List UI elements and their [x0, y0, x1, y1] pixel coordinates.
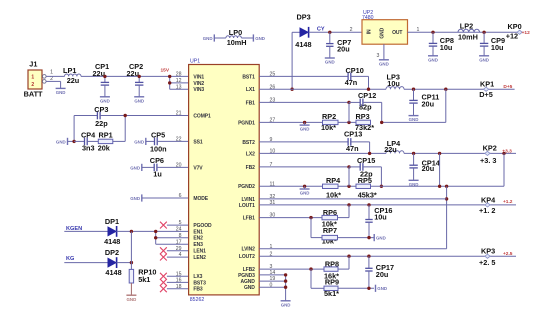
wire DP1 to EN node — [116, 230, 188, 232]
wire LOUT1 row — [259, 204, 516, 206]
wire VIN2 VIN3 drop — [170, 76, 189, 89]
capacitor CP6 — [150, 156, 189, 178]
resistor RP6 — [322, 205, 349, 229]
svg-text:EN1: EN1 — [193, 229, 203, 235]
junction EN1 — [154, 230, 157, 233]
ground G-CP5 — [134, 138, 154, 145]
port KP1 D+5 — [479, 80, 512, 99]
ground G-RP9 — [376, 285, 388, 292]
port KP3 +2.5 — [479, 246, 513, 266]
svg-text:IN: IN — [366, 29, 372, 34]
svg-text:20u: 20u — [337, 44, 350, 53]
svg-text:BST2: BST2 — [242, 140, 255, 146]
pin 22 SS1 name+number — [176, 137, 203, 146]
wire KGEN to DP1 — [64, 230, 108, 232]
pin 20 V7V name+number — [176, 163, 204, 172]
svg-text:VIN1: VIN1 — [193, 74, 204, 80]
svg-text:7480: 7480 — [362, 15, 374, 21]
junction CP16 rail — [367, 203, 370, 206]
ground G-RP10 — [126, 295, 136, 302]
svg-text:GND: GND — [134, 139, 144, 144]
junction RP5 right — [380, 185, 383, 188]
svg-text:GND: GND — [479, 57, 489, 62]
junction RP2-RP3 FB node — [347, 102, 350, 124]
ground G-MODE — [130, 194, 188, 201]
pin 13 VIN3 name+number — [176, 84, 205, 93]
ground G-RP7 — [374, 234, 386, 241]
svg-text:18: 18 — [176, 284, 182, 290]
wire LVIN1 row — [259, 198, 446, 200]
svg-text:GND: GND — [100, 98, 110, 103]
junction PGND2 gnd — [303, 185, 306, 188]
svg-text:10mH: 10mH — [227, 38, 247, 47]
wire divider2 top run — [371, 153, 505, 186]
svg-text:GND: GND — [134, 98, 144, 103]
junction CP9 — [482, 31, 485, 34]
wire DP2 to node — [116, 262, 131, 264]
svg-text:LX3: LX3 — [193, 274, 202, 280]
capacitor CP4 — [74, 130, 98, 152]
wire input rail LP1 to VIN1 — [81, 75, 189, 77]
wire PGND1 row — [259, 121, 356, 123]
svg-text:CP3: CP3 — [94, 105, 108, 114]
pin stub PGOOD — [167, 224, 189, 226]
svg-text:6: 6 — [179, 193, 182, 199]
junction RP6 rail — [347, 203, 350, 206]
svg-text:KP2: KP2 — [483, 144, 497, 153]
pin 9 BST2 name+number — [242, 137, 272, 146]
svg-text:BATT: BATT — [24, 90, 43, 99]
junction CY node — [328, 31, 331, 34]
pin stub LEN2 — [167, 256, 189, 258]
svg-text:PGND1: PGND1 — [238, 120, 255, 126]
junction LVIN1 tie — [445, 197, 448, 200]
svg-text:2: 2 — [350, 27, 353, 33]
port KP0 +12 — [506, 22, 530, 41]
inductor LP0 — [226, 28, 247, 47]
capacitor CP3 — [94, 105, 125, 128]
svg-text:GND: GND — [376, 236, 386, 241]
svg-text:CP5: CP5 — [151, 131, 165, 140]
pin 29 LEN1 name+number — [176, 246, 206, 255]
svg-text:100n: 100n — [150, 145, 167, 154]
wire J1 pin2 jog to ground — [46, 81, 61, 88]
resistor RP8 — [324, 256, 349, 280]
wire UP2 OUT rail — [408, 31, 520, 33]
svg-text:22u: 22u — [384, 145, 397, 154]
svg-text:RP7: RP7 — [323, 226, 337, 235]
svg-text:OUT: OUT — [392, 30, 402, 36]
svg-text:15: 15 — [176, 271, 182, 277]
ground G-CP6 — [130, 164, 154, 171]
svg-text:22: 22 — [176, 137, 182, 143]
no-ERC mark pin 5 — [160, 222, 167, 229]
svg-text:SS1: SS1 — [193, 139, 202, 145]
svg-text:VIN3: VIN3 — [193, 87, 204, 93]
svg-text:5k1: 5k1 — [138, 275, 150, 284]
wire COMP gnd riser — [74, 116, 97, 142]
svg-text:LP2: LP2 — [460, 22, 473, 31]
ground G-CP11 — [409, 116, 419, 123]
junction LDO feed takeoff — [445, 185, 448, 188]
capacitor CP5 — [150, 131, 189, 154]
svg-text:CP4: CP4 — [81, 130, 96, 139]
svg-text:5: 5 — [179, 220, 182, 226]
svg-text:AGND: AGND — [240, 279, 255, 285]
svg-text:LP0: LP0 — [229, 28, 242, 37]
svg-text:EN3: EN3 — [193, 242, 203, 248]
resistor RP1 — [98, 130, 126, 152]
capacitor CP15 — [349, 156, 381, 187]
resistor RP3 — [355, 112, 374, 132]
pin 1 LVIN2 name+number — [241, 244, 272, 253]
svg-text:GND: GND — [379, 61, 389, 66]
svg-text:1: 1 — [31, 74, 34, 80]
wire divider1 feed — [382, 89, 446, 122]
wire LOUT2 row — [259, 255, 516, 257]
junction PGND1 gnd — [303, 121, 306, 124]
svg-text:GND: GND — [244, 285, 255, 291]
pin 3 LFB2 name+number — [243, 264, 273, 273]
svg-text:EN2: EN2 — [193, 236, 203, 242]
svg-text:KP0: KP0 — [508, 22, 522, 31]
wire LFB2 row — [259, 268, 324, 270]
svg-text:KP3: KP3 — [481, 246, 495, 255]
svg-text:BST1: BST1 — [242, 74, 255, 80]
svg-text:GND: GND — [409, 117, 419, 122]
wire LX1 to DP3 riser — [292, 32, 300, 89]
ground G-UP2 — [379, 60, 389, 67]
wire diode-OR vertical — [130, 231, 132, 269]
svg-text:LOUT2: LOUT2 — [239, 254, 255, 260]
wire FB2 row — [259, 166, 349, 168]
svg-text:10u: 10u — [440, 43, 453, 52]
svg-text:20u: 20u — [422, 99, 435, 108]
svg-text:FB3: FB3 — [193, 287, 202, 293]
pin 7 FB2 name+number — [246, 162, 273, 171]
pin 2 LOUT2 name+number — [239, 251, 273, 260]
pin 28 VIN1 name+number — [176, 72, 205, 81]
ground G-CP9 — [479, 56, 489, 63]
diode DP2 — [105, 248, 122, 277]
svg-text:COMP1: COMP1 — [193, 113, 211, 119]
no-ERC mark pin 29 — [160, 247, 167, 254]
svg-text:10u: 10u — [374, 212, 387, 221]
svg-text:GND: GND — [377, 286, 387, 291]
svg-text:13: 13 — [176, 84, 182, 90]
wire LX2 row — [259, 152, 386, 154]
svg-text:+2. 5: +2. 5 — [479, 258, 495, 267]
capacitor CP2 — [127, 62, 144, 97]
net label 15V — [161, 68, 170, 74]
svg-text:GND: GND — [56, 90, 66, 95]
junction input rail at CP1 — [103, 75, 106, 78]
svg-text:FB2: FB2 — [246, 165, 255, 171]
inductor LP4 — [384, 139, 404, 154]
pin 23 FB1 name+number — [246, 98, 276, 107]
wire RP1 riser to COMP1 — [125, 116, 188, 142]
resistor RP10 — [129, 268, 156, 284]
pin 26 LX1 name+number — [246, 84, 275, 93]
svg-text:+12: +12 — [506, 32, 518, 41]
no-ERC mark pin 18 — [160, 285, 167, 292]
wire D+5 rail — [404, 88, 515, 90]
ground G-PGND1 — [300, 122, 310, 131]
ground G-CP1 — [100, 97, 110, 104]
pin 8 EN2 name+number — [179, 233, 204, 242]
svg-text:UP1: UP1 — [190, 58, 200, 64]
svg-text:+2.5: +2.5 — [503, 251, 513, 257]
inductor LP1 — [63, 66, 81, 85]
wire PGND3 row — [259, 274, 285, 276]
pin number 1 of J1 — [50, 69, 53, 75]
svg-text:PGND3: PGND3 — [238, 273, 255, 279]
junction DP1 output — [130, 230, 133, 233]
svg-text:V7V: V7V — [193, 165, 203, 171]
junction VIN rail — [168, 75, 171, 78]
diode DP1 — [104, 217, 120, 246]
wire LFB1 row — [259, 217, 322, 219]
pin 27 PGND1 name+number — [238, 118, 275, 127]
svg-text:4: 4 — [179, 252, 182, 258]
wire ground bus drop — [285, 275, 287, 301]
junction EN2 — [154, 236, 157, 239]
net label CY — [317, 26, 325, 32]
capacitor CP16 — [365, 205, 392, 238]
capacitor CP9 — [480, 32, 505, 55]
wire LFB1 to RP7 — [311, 218, 322, 238]
junction CP17 bottom — [367, 287, 370, 290]
svg-text:PGND2: PGND2 — [238, 184, 255, 190]
pin 15 LX3 name+number — [176, 271, 203, 280]
net label KGEN — [66, 226, 82, 232]
junction COMP gnd node — [72, 140, 75, 143]
resistor RP2 — [321, 112, 338, 132]
wire LFB2 to RP9 — [311, 269, 324, 288]
junction divider1 top — [444, 88, 447, 91]
wire +3.3 rail — [404, 152, 516, 154]
wire PGND2 row — [259, 185, 356, 187]
port KP4 +1.2 — [479, 195, 513, 215]
IC UP1 85262 body — [189, 58, 260, 302]
pin 11 PGND2 name+number — [238, 181, 275, 190]
pin 21 COMP1 name+number — [176, 111, 211, 120]
svg-text:+1.2: +1.2 — [503, 199, 513, 205]
svg-text:KP1: KP1 — [480, 80, 494, 89]
pin 30 LFB1 name+number — [243, 213, 276, 222]
svg-text:10u: 10u — [491, 43, 504, 52]
pin 32 LVIN1 name+number — [241, 194, 275, 203]
svg-text:4148: 4148 — [295, 40, 311, 49]
pin 14 PGND3 name+number — [238, 270, 275, 279]
junction LFB2 node — [309, 267, 312, 270]
capacitor CP8 — [429, 32, 454, 55]
pin 0 GND name+number — [244, 282, 273, 291]
svg-text:22u: 22u — [127, 69, 140, 78]
svg-text:10mH: 10mH — [458, 33, 478, 42]
net label KG — [66, 256, 74, 262]
svg-text:FB1: FB1 — [246, 100, 255, 106]
ground G-LP0-right — [253, 34, 265, 41]
capacitor CP17 — [365, 256, 394, 288]
ground G-LP0-left — [203, 34, 226, 41]
inductor LP2 — [458, 22, 480, 42]
svg-text:KP4: KP4 — [481, 195, 496, 204]
svg-text:82p: 82p — [359, 102, 372, 111]
svg-text:BST3: BST3 — [193, 280, 206, 286]
capacitor CP12 — [349, 91, 382, 122]
svg-text:DP2: DP2 — [105, 248, 119, 257]
junction FB2 node — [347, 165, 350, 168]
svg-text:LOUT1: LOUT1 — [239, 203, 255, 209]
junction rail-divider2 — [438, 152, 441, 155]
junction FB1 node — [347, 101, 350, 104]
regulator UP2 (7480) — [362, 10, 408, 44]
wire KG to DP2 — [64, 262, 108, 264]
ground G-COMP — [56, 138, 74, 145]
svg-text:RP9: RP9 — [325, 278, 339, 287]
pin stub FB3 — [167, 288, 189, 290]
svg-text:MODE: MODE — [193, 196, 208, 202]
pin 17 EN3 name+number — [176, 239, 203, 248]
junction divider2-rail riser — [438, 185, 441, 188]
svg-text:1: 1 — [50, 69, 53, 75]
svg-text:22u: 22u — [93, 69, 106, 78]
svg-text:D+5: D+5 — [503, 84, 512, 90]
pin 19 AGND name+number — [240, 276, 275, 285]
resistor RP7 — [322, 226, 374, 246]
pin 6 MODE name+number — [179, 193, 209, 202]
svg-text:20u: 20u — [422, 164, 435, 173]
svg-text:3: 3 — [377, 53, 380, 59]
svg-text:DP1: DP1 — [105, 217, 119, 226]
svg-text:J1: J1 — [29, 59, 37, 68]
svg-text:+3. 3: +3. 3 — [480, 156, 496, 165]
capacitor CP1 — [93, 62, 110, 97]
svg-text:85262: 85262 — [190, 297, 205, 303]
svg-text:8: 8 — [179, 233, 182, 239]
svg-text:24: 24 — [176, 227, 182, 233]
svg-text:GND: GND — [255, 36, 265, 41]
pin 25 BST1 name+number — [242, 72, 275, 81]
capacitor CP11 — [409, 89, 439, 115]
junction rail-KP2 feed — [502, 152, 505, 155]
pin number 2 of J1 — [50, 76, 53, 82]
junction CP8 — [431, 31, 434, 34]
pin 12 VIN2 name+number — [176, 78, 205, 87]
svg-text:RP3: RP3 — [356, 112, 370, 121]
junction CP14 — [412, 152, 415, 155]
svg-text:21: 21 — [176, 111, 182, 117]
svg-text:LEN1: LEN1 — [193, 249, 206, 255]
capacitor CP7 — [326, 32, 351, 58]
capacitor CP13 — [344, 129, 370, 153]
svg-text:CP13: CP13 — [344, 129, 362, 138]
svg-text:15V: 15V — [161, 68, 170, 74]
svg-text:20u: 20u — [376, 270, 389, 279]
svg-text:10u: 10u — [387, 79, 400, 88]
svg-text:16: 16 — [176, 278, 182, 284]
no-ERC mark pin 4 — [160, 254, 167, 261]
junction PGND3 — [284, 273, 287, 276]
capacitor CP14 — [409, 153, 440, 180]
svg-text:GND: GND — [428, 57, 438, 62]
wire GND pin row — [259, 286, 285, 288]
svg-text:12: 12 — [176, 78, 182, 84]
wire DP3 to UP2 IN — [309, 31, 362, 33]
diode DP3 — [295, 12, 311, 49]
svg-text:22p: 22p — [95, 119, 108, 128]
pin 4 LEN2 name+number — [179, 252, 206, 261]
svg-text:GND: GND — [300, 127, 310, 132]
resistor RP5 — [356, 176, 377, 200]
pin 18 FB3 name+number — [176, 284, 203, 293]
junction DP2 output — [130, 261, 133, 264]
pin number 2 of UP2 — [350, 27, 353, 33]
svg-text:GND: GND — [130, 196, 140, 201]
junction GND pin — [284, 286, 287, 289]
svg-text:4148: 4148 — [104, 237, 120, 246]
svg-text:GND: GND — [380, 27, 386, 38]
junction AGND — [284, 279, 287, 282]
resistor RP4 — [323, 176, 342, 200]
connector J1 — [24, 59, 46, 98]
junction LFB1 node — [309, 216, 312, 219]
junction CP16 bottom — [367, 236, 370, 239]
svg-text:GND: GND — [127, 297, 137, 302]
ground G-CP14 — [409, 180, 419, 187]
wire BST2 row — [259, 141, 348, 143]
junction RP4-RP5 FB node — [347, 167, 350, 188]
junction RP3 right — [380, 121, 383, 124]
pin number 1 of UP2 — [417, 27, 420, 33]
capacitor CP10 — [345, 66, 369, 89]
pin 31 LOUT1 name+number — [239, 200, 275, 209]
svg-text:GND: GND — [130, 165, 140, 170]
ground G-UP1 — [281, 301, 291, 308]
pin 16 BST3 name+number — [176, 278, 206, 287]
pin 5 PGOOD name+number — [179, 220, 212, 229]
svg-text:GND: GND — [56, 139, 66, 144]
svg-text:LVIN2: LVIN2 — [241, 247, 255, 253]
junction input rail at CP2 — [138, 75, 141, 78]
svg-text:LX2: LX2 — [246, 151, 255, 157]
svg-text:PGOOD: PGOOD — [193, 223, 212, 229]
junction COMP1 node — [124, 114, 127, 117]
svg-text:17: 17 — [176, 239, 182, 245]
wire BST1 row — [259, 75, 348, 77]
junction CP17 rail — [367, 255, 370, 258]
wire FB1 row — [259, 101, 349, 103]
svg-text:22u: 22u — [67, 76, 80, 85]
svg-text:RP1: RP1 — [99, 130, 113, 139]
pin stub LEN1 — [167, 250, 189, 252]
svg-text:4148: 4148 — [105, 268, 121, 277]
wire LDO input feed — [259, 186, 446, 248]
wire LX1 row — [259, 88, 386, 90]
wire AGND row — [259, 280, 285, 282]
wire EN vertical — [156, 231, 189, 244]
svg-text:+12: +12 — [522, 30, 530, 36]
svg-text:LP1: LP1 — [63, 66, 76, 75]
svg-text:CY: CY — [317, 26, 325, 32]
ground G-CP8 — [428, 56, 438, 63]
junction LX1 tap — [290, 88, 293, 91]
ground G-CP7 — [325, 58, 335, 65]
svg-text:LEN2: LEN2 — [193, 255, 206, 261]
pin stub LX3 — [167, 275, 189, 277]
junction LX1-CP10 — [367, 88, 370, 91]
